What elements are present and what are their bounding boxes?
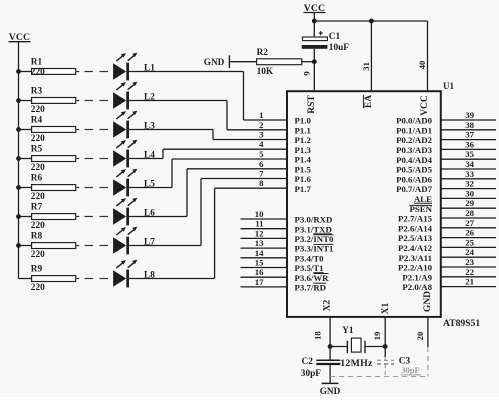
ground terminal GND (near R2) [204, 55, 230, 68]
svg-text:P3.7/RD: P3.7/RD [295, 283, 327, 293]
pin 30 stub [441, 197, 496, 199]
pin label P2.1/A9 [402, 272, 432, 282]
svg-text:X1: X1 [381, 302, 391, 314]
pin label P2.0/A8 [402, 282, 432, 292]
ground GND (bottom) [320, 383, 341, 396]
pin label P0.0/AD0 [396, 116, 433, 126]
svg-text:11: 11 [255, 219, 263, 229]
svg-text:4: 4 [259, 139, 264, 149]
svg-text:34: 34 [465, 159, 474, 169]
junction dot crystal right [383, 344, 388, 349]
resistor R4 220 [31, 116, 76, 145]
pin 22 stub [441, 276, 496, 278]
wire R4 to LED L3 (dashed) [76, 129, 108, 131]
junction dot rail row 1 [16, 69, 21, 74]
pin number 38 [465, 120, 474, 130]
pin 29 stub [441, 207, 496, 209]
LED L3 [113, 111, 155, 139]
svg-text:38: 38 [465, 120, 474, 130]
wire GND bar to R2 [229, 61, 256, 63]
svg-text:22: 22 [465, 267, 474, 277]
pin number 15 [255, 258, 264, 268]
svg-text:X2: X2 [323, 299, 333, 311]
pin number 37 [465, 130, 474, 140]
wire rail to R7 [19, 216, 32, 218]
capacitor C3 30pF (faint) [377, 357, 421, 376]
svg-text:14: 14 [255, 248, 264, 258]
svg-text:220: 220 [31, 192, 45, 202]
wire R7 to LED L6 (dashed) [76, 216, 108, 218]
svg-text:P0.4/AD4: P0.4/AD4 [396, 155, 433, 165]
svg-text:R1: R1 [31, 58, 43, 68]
wire crystal left [330, 346, 347, 348]
svg-text:16: 16 [255, 267, 264, 277]
pin 11 stub [241, 228, 288, 230]
svg-text:P2.7/A15: P2.7/A15 [398, 214, 433, 224]
wire LED L7 to pin 7 (P1.6) [129, 179, 287, 246]
wire RST node to pin 9 [313, 62, 315, 91]
svg-text:15: 15 [255, 258, 264, 268]
resistor R1 220 [31, 58, 76, 78]
svg-text:P3.3/INT1: P3.3/INT1 [295, 244, 334, 254]
svg-text:25: 25 [465, 237, 474, 247]
svg-text:35: 35 [465, 149, 474, 159]
pin label P0.2/AD2 [396, 135, 433, 145]
pin label P0.7/AD7 [396, 184, 433, 194]
pin label VCC (inside right top) [420, 95, 430, 116]
svg-text:ALE: ALE [414, 194, 432, 204]
pin 37 stub [441, 139, 496, 141]
wire pin20 to bottom rail (faint) [427, 347, 429, 377]
pin label EA (inside, overline) [363, 95, 374, 108]
svg-text:P2.3/A11: P2.3/A11 [399, 253, 432, 263]
svg-text:GND: GND [423, 291, 433, 312]
svg-text:30pF: 30pF [401, 365, 420, 375]
pin label P0.5/AD5 [396, 165, 433, 175]
pin label P1.5 [295, 164, 312, 174]
wire LED L2 to pin 2 (P1.1) [129, 101, 287, 130]
svg-text:P1.0: P1.0 [295, 116, 312, 126]
wire R1 to LED L1 (dashed) [76, 71, 108, 73]
pin 26 stub [441, 237, 496, 239]
junction dot rail row 6 [16, 214, 21, 219]
pin 13 stub [241, 247, 288, 249]
resistor R6 220 [31, 174, 76, 203]
svg-text:R8: R8 [31, 232, 43, 242]
pin number 13 [255, 238, 264, 248]
wire R6 to LED L5 (dashed) [76, 187, 108, 189]
svg-text:2: 2 [259, 120, 264, 130]
pin label P0.6/AD6 [396, 174, 433, 184]
svg-text:R6: R6 [31, 174, 43, 184]
pin 17 stub [241, 286, 288, 288]
resistor R8 220 [31, 232, 76, 261]
wire rail to R4 [19, 129, 32, 131]
svg-text:R7: R7 [31, 203, 43, 213]
pin number 3 [259, 130, 264, 140]
svg-text:P3.2/INT0: P3.2/INT0 [295, 234, 334, 244]
pin 33 stub [441, 178, 496, 180]
svg-text:26: 26 [465, 228, 474, 238]
pin number 12 [255, 228, 264, 238]
pin label P3.6/WR (overline) [295, 273, 330, 283]
svg-text:P0.5/AD5: P0.5/AD5 [396, 165, 433, 175]
wire crystal right [365, 346, 385, 348]
svg-text:P3.1/TXD: P3.1/TXD [295, 224, 332, 234]
pin label P3.5/T1 (underline) [295, 263, 324, 273]
pin 38 stub [441, 129, 496, 131]
svg-text:P2.2/A10: P2.2/A10 [398, 263, 433, 273]
pin 12 stub [241, 237, 288, 239]
pin label P3.7/RD (overline) [295, 283, 327, 293]
svg-text:31: 31 [361, 62, 371, 71]
svg-text:13: 13 [255, 238, 264, 248]
junction dot VCC/C1 node [312, 19, 317, 24]
pin label P1.7 [295, 184, 312, 194]
wire rail to R6 [19, 187, 32, 189]
wire LED L5 to pin 5 (P1.4) [129, 159, 287, 188]
pin number 10 [255, 209, 264, 219]
svg-text:37: 37 [465, 130, 474, 140]
svg-text:33: 33 [465, 169, 474, 179]
pin label PSEN (overline) [410, 204, 433, 214]
svg-text:P2.4/A12: P2.4/A12 [398, 243, 433, 253]
power symbol VCC (top) [304, 3, 326, 14]
svg-text:Y1: Y1 [342, 326, 354, 336]
wire LED L3 to pin 3 (P1.2) [129, 130, 287, 140]
pin number 9 (RST) [301, 71, 311, 76]
pin number 32 [465, 179, 474, 189]
LED L2 [113, 82, 155, 110]
svg-text:8: 8 [259, 178, 264, 188]
pin number 18 [313, 331, 323, 340]
pin label GND (inside bottom right) [423, 291, 433, 312]
pin 15 stub [241, 267, 288, 269]
svg-text:P1.5: P1.5 [295, 164, 312, 174]
svg-text:P3.0/RXD: P3.0/RXD [295, 215, 333, 225]
wire left VCC rail vertical [18, 42, 20, 279]
junction dot RST node [312, 59, 317, 64]
pin number 33 [465, 169, 474, 179]
svg-text:P1.2: P1.2 [295, 135, 312, 145]
pin 10 stub [241, 218, 288, 220]
pin number 34 [465, 159, 474, 169]
svg-text:220: 220 [31, 283, 45, 293]
svg-text:24: 24 [465, 247, 474, 257]
resistor R9 220 [31, 265, 76, 294]
pin label P3.0/RXD [295, 215, 333, 225]
pin number 7 [259, 169, 264, 179]
junction dot rail row 2 [16, 98, 21, 103]
wire R9 to LED L8 (dashed) [76, 278, 108, 280]
svg-text:6: 6 [259, 159, 264, 169]
pin 32 stub [441, 188, 496, 190]
resistor R2 10K [257, 48, 302, 77]
pin number 27 [465, 218, 474, 228]
junction dot pin31 branch [369, 19, 374, 24]
svg-text:P1.7: P1.7 [295, 184, 312, 194]
wire LED L6 to pin 6 (P1.5) [129, 169, 287, 217]
capacitor C2 30pF [301, 357, 341, 379]
svg-text:EA: EA [364, 95, 374, 108]
svg-text:28: 28 [465, 208, 474, 218]
pin label P1.3 [295, 145, 312, 155]
wire C1 bottom to RST node [313, 49, 315, 62]
pin number 26 [465, 228, 474, 238]
svg-text:220: 220 [31, 221, 45, 231]
resistor R7 220 [31, 203, 76, 232]
wire C2 to ground [329, 364, 331, 383]
svg-text:12: 12 [255, 228, 264, 238]
svg-text:1: 1 [259, 110, 263, 120]
LED L7 [113, 227, 155, 255]
pin number 39 [465, 110, 474, 120]
LED L1 [113, 53, 155, 81]
pin label P2.6/A14 [398, 223, 433, 233]
svg-text:P0.3/AD3: P0.3/AD3 [396, 145, 433, 155]
pin number 24 [465, 247, 474, 257]
svg-text:17: 17 [255, 277, 264, 287]
wire pin19 node to C3 (faint) [384, 357, 386, 377]
svg-text:29: 29 [465, 198, 474, 208]
svg-text:27: 27 [465, 218, 474, 228]
wire pin 31 EA to VCC [370, 21, 372, 91]
crystal Y1 12MHz [340, 326, 373, 369]
pin 35 stub [441, 158, 496, 160]
wire pin 20 (GND) [427, 317, 429, 347]
wire R8 to LED L7 (dashed) [76, 245, 108, 247]
svg-text:40: 40 [417, 60, 427, 69]
pin label P2.3/A11 [399, 253, 432, 263]
svg-text:220: 220 [31, 105, 45, 115]
svg-text:C1: C1 [329, 32, 341, 42]
svg-text:7: 7 [259, 169, 264, 179]
svg-text:GND: GND [204, 57, 225, 67]
pin 27 stub [441, 227, 496, 229]
wire node to C1 top [313, 21, 315, 37]
svg-text:P2.6/A14: P2.6/A14 [398, 223, 433, 233]
pin 21 stub [441, 286, 496, 288]
pin 36 stub [441, 148, 496, 150]
resistor R5 220 [31, 145, 76, 174]
svg-text:RST: RST [307, 95, 317, 114]
pin number 21 [465, 277, 474, 287]
svg-text:12MHz: 12MHz [340, 358, 373, 369]
wire pin 40 VCC [427, 21, 429, 91]
svg-text:36: 36 [465, 139, 474, 149]
pin number 14 [255, 248, 264, 258]
svg-text:P0.6/AD6: P0.6/AD6 [396, 174, 433, 184]
LED L5 [113, 169, 155, 197]
wire LED L1 to pin 1 (P1.0) [129, 72, 287, 121]
wire LED L4 to pin 4 (P1.3) [129, 149, 287, 158]
svg-text:P0.7/AD7: P0.7/AD7 [396, 184, 433, 194]
pin label X1 (inside) [381, 302, 391, 314]
LED L4 [113, 140, 155, 168]
pin 16 stub [241, 276, 288, 278]
pin 34 stub [441, 168, 496, 170]
svg-text:P3.4/T0: P3.4/T0 [295, 253, 325, 263]
pin number 2 [259, 120, 264, 130]
pin label P1.4 [295, 155, 312, 165]
LED L8 [113, 260, 155, 288]
svg-text:P3.6/WR: P3.6/WR [295, 273, 330, 283]
wire pin 18 (X2) [329, 317, 331, 360]
junction dot crystal left [328, 344, 333, 349]
pin number 11 [255, 219, 263, 229]
pin number 28 [465, 208, 474, 218]
pin number 5 [259, 149, 264, 159]
svg-text:R2: R2 [257, 48, 269, 58]
pin label P1.1 [295, 125, 311, 135]
pin number 4 [259, 139, 264, 149]
pin label ALE (underline) [414, 194, 432, 204]
svg-text:30pF: 30pF [301, 369, 321, 379]
svg-text:220: 220 [31, 68, 45, 78]
svg-text:39: 39 [465, 110, 474, 120]
pin label P1.2 [295, 135, 312, 145]
pin label P3.2/INT0 (overline) [295, 234, 334, 244]
pin number 29 [465, 198, 474, 208]
pin label X2 (inside) [323, 299, 333, 311]
svg-text:220: 220 [31, 163, 45, 173]
svg-text:10K: 10K [257, 67, 274, 77]
pin number 19 [372, 331, 382, 340]
wire rail to R5 [19, 158, 32, 160]
pin label P2.4/A12 [398, 243, 433, 253]
svg-text:P2.5/A13: P2.5/A13 [398, 233, 433, 243]
svg-text:P0.1/AD1: P0.1/AD1 [396, 125, 432, 135]
pin 24 stub [441, 256, 496, 258]
IC U1 AT89S51 body [287, 81, 480, 329]
svg-text:P1.6: P1.6 [295, 174, 312, 184]
pin label P1.0 [295, 116, 312, 126]
svg-text:U1: U1 [443, 81, 454, 91]
svg-text:19: 19 [372, 331, 382, 340]
svg-text:P1.3: P1.3 [295, 145, 312, 155]
wire R5 to LED L4 (dashed) [76, 158, 108, 160]
svg-text:AT89S51: AT89S51 [443, 318, 480, 329]
pin label P1.6 [295, 174, 312, 184]
svg-text:30: 30 [465, 188, 474, 198]
LED L6 [113, 198, 155, 226]
pin label P2.2/A10 [398, 263, 433, 273]
pin number 20 [415, 331, 425, 340]
pin number 35 [465, 149, 474, 159]
svg-text:3: 3 [259, 130, 264, 140]
svg-text:10: 10 [255, 209, 264, 219]
svg-text:220: 220 [31, 134, 45, 144]
svg-text:P2.0/A8: P2.0/A8 [402, 282, 432, 292]
pin 14 stub [241, 257, 288, 259]
junction dot rail row 4 [16, 156, 21, 161]
capacitor C1 10uF (polarized) [302, 31, 350, 53]
svg-text:20: 20 [415, 331, 425, 340]
svg-text:R3: R3 [31, 87, 43, 97]
svg-text:GND: GND [320, 386, 341, 396]
svg-text:C2: C2 [302, 357, 314, 367]
svg-text:P3.5/T1: P3.5/T1 [295, 263, 324, 273]
wire R2 to RST node [302, 61, 315, 63]
svg-text:9: 9 [301, 71, 311, 76]
pin label P3.1/TXD (underline) [295, 224, 332, 234]
pin label P0.1/AD1 [396, 125, 432, 135]
pin number 40 (VCC) [417, 60, 427, 69]
pin label P2.7/A15 [398, 214, 433, 224]
pin number 25 [465, 237, 474, 247]
svg-text:P1.4: P1.4 [295, 155, 312, 165]
pin number 8 [259, 178, 264, 188]
pin 39 stub [441, 119, 496, 121]
svg-text:5: 5 [259, 149, 264, 159]
svg-text:220: 220 [31, 250, 45, 260]
pin number 1 [259, 110, 263, 120]
resistor R3 220 [31, 87, 76, 116]
svg-text:P0.0/AD0: P0.0/AD0 [396, 116, 433, 126]
svg-text:P0.2/AD2: P0.2/AD2 [396, 135, 433, 145]
wire VCC top drop [313, 13, 315, 22]
pin 23 stub [441, 266, 496, 268]
svg-text:21: 21 [465, 277, 474, 287]
svg-text:23: 23 [465, 257, 474, 267]
svg-text:10uF: 10uF [329, 43, 349, 53]
wire bottom ground rail (faint) [330, 376, 428, 378]
pin label P3.3/INT1 (overline) [295, 244, 334, 254]
svg-text:18: 18 [313, 331, 323, 340]
svg-text:R9: R9 [31, 265, 43, 275]
junction dot rail row 7 [16, 243, 21, 248]
pin number 31 (EA) [361, 62, 371, 71]
pin 25 stub [441, 246, 496, 248]
junction dot rail row 3 [16, 127, 21, 132]
svg-text:P2.1/A9: P2.1/A9 [402, 272, 432, 282]
pin number 6 [259, 159, 264, 169]
pin number 22 [465, 267, 474, 277]
pin label P2.5/A13 [398, 233, 433, 243]
svg-text:R4: R4 [31, 116, 43, 126]
wire rail to R3 [19, 100, 32, 102]
wire rail to R1 [19, 71, 32, 73]
pin label P0.3/AD3 [396, 145, 433, 155]
junction dot rail row 5 [16, 185, 21, 190]
wire pin 19 (X1) [384, 317, 386, 357]
wire R3 to LED L2 (dashed) [76, 100, 108, 102]
pin label RST (inside) [307, 95, 317, 114]
svg-text:VCC: VCC [420, 95, 430, 116]
svg-text:R5: R5 [31, 145, 43, 155]
wire VCC node to pin40 corner [314, 20, 427, 22]
pin number 30 [465, 188, 474, 198]
pin number 17 [255, 277, 264, 287]
pin number 36 [465, 139, 474, 149]
wire LED L8 to pin 8 (P1.7) [129, 188, 287, 278]
pin label P3.4/T0 [295, 253, 325, 263]
pin number 16 [255, 267, 264, 277]
pin number 23 [465, 257, 474, 267]
pin 28 stub [441, 217, 496, 219]
svg-text:32: 32 [465, 179, 474, 189]
wire rail to R8 [19, 245, 32, 247]
wire rail to R9 [19, 278, 32, 280]
svg-text:P1.1: P1.1 [295, 125, 311, 135]
pin label P0.4/AD4 [396, 155, 433, 165]
power symbol VCC (left rail) [9, 32, 31, 43]
